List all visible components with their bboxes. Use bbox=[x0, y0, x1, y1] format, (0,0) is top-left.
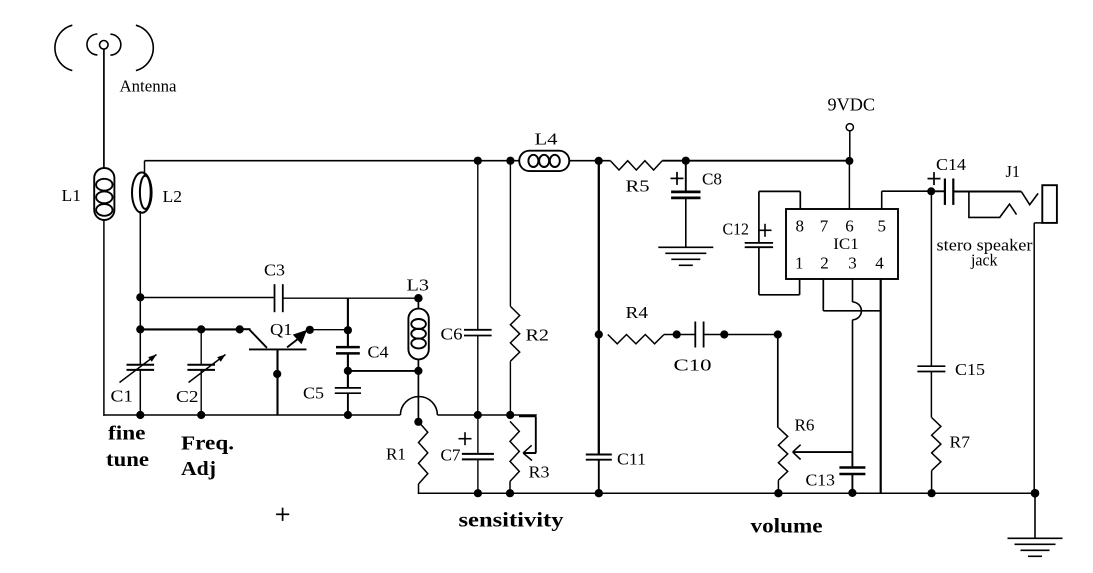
wire 9VDC drop bbox=[849, 131, 851, 161]
svg-text:C4: C4 bbox=[368, 343, 390, 362]
node C8 tap bbox=[682, 157, 690, 165]
potentiometer R6 bbox=[778, 428, 787, 481]
wire base wire bbox=[140, 328, 239, 330]
node C13 bottom bbox=[848, 489, 856, 497]
svg-text:6: 6 bbox=[845, 217, 854, 236]
wire C14 to jack bbox=[954, 191, 1021, 193]
node L3 bottom bbox=[414, 367, 422, 375]
svg-text:1: 1 bbox=[795, 254, 804, 273]
svg-text:IC1: IC1 bbox=[833, 236, 859, 253]
label R1 bbox=[386, 445, 406, 464]
wire R3 wiper bracket bbox=[519, 416, 536, 453]
svg-text:R6: R6 bbox=[795, 416, 815, 435]
wire pin3 hop bbox=[853, 302, 862, 320]
label C15 bbox=[955, 360, 985, 379]
node Q1 base-left bbox=[236, 325, 244, 333]
ground C8 bbox=[658, 198, 713, 265]
node supply-line top bbox=[595, 157, 603, 165]
node R6 bottom bbox=[774, 489, 782, 497]
capacitor C14 bbox=[945, 179, 953, 205]
node R2-R3 junction bbox=[506, 411, 514, 419]
svg-text:tune: tune bbox=[106, 449, 149, 471]
node R7 bottom bbox=[928, 489, 936, 497]
node C10 right bbox=[720, 330, 728, 338]
wire hop to C6 line bbox=[437, 414, 536, 416]
resistor R2 bbox=[510, 306, 519, 361]
svg-text:Antenna: Antenna bbox=[120, 77, 178, 96]
svg-text:3: 3 bbox=[848, 254, 857, 273]
svg-text:fine: fine bbox=[108, 423, 146, 445]
svg-text:C15: C15 bbox=[955, 360, 985, 379]
inductor L4 bbox=[519, 151, 569, 171]
capacitor C5 bbox=[335, 388, 361, 393]
variable capacitor C1 bbox=[120, 355, 157, 383]
wire L3 top stub bbox=[417, 298, 419, 309]
svg-text:L1: L1 bbox=[62, 186, 82, 205]
wire bottom rail bbox=[418, 492, 1035, 494]
label C4 bbox=[368, 343, 390, 362]
svg-text:7: 7 bbox=[820, 217, 829, 236]
wire C1 to rail bbox=[139, 370, 141, 415]
wire pin5 bbox=[882, 191, 932, 209]
svg-text:C3: C3 bbox=[264, 261, 285, 280]
node C14 junction bbox=[927, 187, 935, 195]
svg-text:C8: C8 bbox=[702, 170, 722, 189]
label C7 bbox=[441, 446, 461, 465]
jack J1 tip contact bbox=[1021, 192, 1038, 205]
wiper arrow R6 bbox=[793, 445, 853, 460]
label sensitivity bbox=[459, 508, 564, 532]
svg-text:C10: C10 bbox=[674, 356, 712, 375]
wire supply vertical bbox=[598, 161, 600, 454]
wire R5 to 9VDC bbox=[662, 160, 849, 162]
svg-text:2: 2 bbox=[820, 254, 829, 273]
capacitor C15 bbox=[917, 366, 945, 371]
label IC1 pin 6 bbox=[845, 217, 854, 236]
wire jack sleeve bbox=[1034, 223, 1042, 493]
svg-text:C1: C1 bbox=[111, 387, 134, 406]
wire C14 left stub bbox=[931, 190, 944, 192]
node C2 bottom bbox=[197, 411, 205, 419]
node C10 left bbox=[673, 330, 681, 338]
label volume bbox=[751, 514, 823, 538]
node C4 line junction bbox=[344, 326, 352, 334]
inductor L2 bbox=[132, 172, 152, 212]
label IC1 pin 5 bbox=[877, 217, 886, 236]
node L2-C3 junction bbox=[136, 293, 144, 301]
capacitor C12 plus bbox=[759, 224, 772, 237]
transistor Q1 bbox=[240, 329, 311, 415]
stray plus mark bbox=[276, 508, 289, 521]
label Freq. bbox=[181, 433, 234, 455]
label Adj bbox=[181, 458, 216, 480]
svg-text:R3: R3 bbox=[529, 463, 550, 482]
wire C13 to rail bbox=[851, 474, 853, 493]
label fine bbox=[108, 423, 146, 445]
node Q1 right bbox=[306, 326, 314, 334]
svg-text:9VDC: 9VDC bbox=[828, 95, 876, 115]
wire L1 to bottom rail bbox=[103, 220, 105, 416]
svg-text:jack: jack bbox=[970, 251, 998, 270]
svg-text:C12: C12 bbox=[723, 220, 750, 239]
node R6 top corner bbox=[774, 330, 782, 338]
node rail end bbox=[1031, 489, 1040, 498]
inductor L1 bbox=[94, 168, 114, 220]
wire antenna to L1 bbox=[103, 49, 105, 168]
label IC1 pin 7 bbox=[820, 217, 829, 236]
wire C3 feed bbox=[140, 297, 273, 299]
svg-text:C13: C13 bbox=[806, 471, 836, 490]
wire wiper to C13 bbox=[851, 452, 853, 467]
label C10 bbox=[674, 356, 712, 375]
wire C2 to rail bbox=[200, 370, 202, 415]
label IC1 bbox=[833, 236, 859, 253]
node C11 bottom bbox=[595, 489, 603, 497]
svg-text:C2: C2 bbox=[176, 387, 199, 406]
label C3 bbox=[264, 261, 285, 280]
wire pin8 loop bbox=[759, 191, 800, 242]
capacitor C4 bbox=[336, 347, 360, 353]
label IC1 pin 4 bbox=[875, 254, 884, 273]
wire L2 bottom stub bbox=[139, 211, 141, 297]
wire pin3 to wiper bbox=[852, 320, 854, 452]
svg-text:Adj: Adj bbox=[181, 458, 216, 480]
label C5 bbox=[303, 384, 324, 403]
label C11 bbox=[617, 450, 646, 469]
wire L2 top stub bbox=[144, 161, 146, 177]
wire C10 to corner bbox=[704, 334, 778, 336]
inductor L3 bbox=[408, 309, 428, 360]
node 9VDC rail bbox=[845, 157, 853, 165]
capacitor C7 bbox=[462, 454, 494, 460]
wiper arrow R3 bbox=[523, 445, 536, 460]
node L3 top bbox=[414, 294, 422, 302]
wire C15 line bbox=[930, 191, 932, 366]
capacitor C7 plus bbox=[459, 432, 472, 445]
label IC1 pin 2 bbox=[820, 254, 829, 273]
label Antenna bbox=[120, 77, 178, 96]
node Q1 emitter dot bbox=[273, 370, 281, 378]
svg-text:L3: L3 bbox=[407, 276, 430, 295]
label C14 bbox=[936, 155, 967, 174]
wire R3 to rail bbox=[509, 481, 511, 493]
wire C4-C5 mid bbox=[347, 353, 349, 387]
capacitor C8 plus bbox=[671, 172, 684, 185]
svg-text:8: 8 bbox=[795, 217, 804, 236]
svg-text:volume: volume bbox=[751, 514, 823, 538]
svg-text:C7: C7 bbox=[441, 446, 461, 465]
capacitor C8 bbox=[671, 192, 700, 198]
svg-text:R2: R2 bbox=[526, 326, 550, 345]
wire L3 to hop bbox=[417, 371, 419, 422]
svg-text:5: 5 bbox=[877, 217, 886, 236]
svg-text:R7: R7 bbox=[950, 433, 971, 452]
wire R2 bottom stub bbox=[509, 361, 511, 415]
label R5 bbox=[626, 177, 650, 196]
wire L3 bottom stub bbox=[417, 359, 419, 371]
wire C7 to rail bbox=[477, 459, 479, 493]
node R4 tap bbox=[595, 330, 603, 338]
jack J1 body bbox=[1042, 185, 1057, 223]
capacitor C12 bbox=[745, 243, 773, 247]
wire R1 to rail bbox=[418, 484, 420, 494]
svg-text:C6: C6 bbox=[441, 325, 463, 344]
capacitor C14 plus bbox=[928, 172, 941, 185]
label C2 bbox=[176, 387, 199, 406]
variable capacitor C2 bbox=[187, 355, 225, 383]
capacitor C11 bbox=[586, 455, 612, 460]
label L4 bbox=[535, 130, 559, 149]
svg-text:L4: L4 bbox=[535, 130, 559, 149]
wire Q1 to C4 line bbox=[310, 329, 348, 331]
wire C3 to L3 top bbox=[284, 297, 419, 299]
label IC1 pin 8 bbox=[795, 217, 804, 236]
wire C15 to R7 bbox=[930, 372, 932, 418]
resistor R7 bbox=[932, 418, 941, 471]
label R7 bbox=[950, 433, 971, 452]
label IC1 pin 1 bbox=[795, 254, 804, 273]
wire C5 to rail bbox=[347, 393, 349, 415]
label R2 bbox=[526, 326, 550, 345]
svg-text:sensitivity: sensitivity bbox=[459, 508, 564, 532]
label C1 bbox=[111, 387, 134, 406]
node C4-C5 tap bbox=[344, 367, 352, 375]
wire bottom-left rail bbox=[103, 414, 400, 416]
label C6 bbox=[441, 325, 463, 344]
jack J1 switch contact bbox=[969, 192, 1017, 218]
svg-text:C5: C5 bbox=[303, 384, 324, 403]
label J1 bbox=[1006, 162, 1021, 181]
node C6 bottom bbox=[474, 411, 482, 419]
svg-text:C11: C11 bbox=[617, 450, 646, 469]
label IC1 pin 3 bbox=[848, 254, 857, 273]
wire C11 to rail bbox=[598, 460, 600, 494]
node R2 top bbox=[506, 157, 514, 165]
node C6 top bbox=[474, 157, 482, 165]
svg-text:Q1: Q1 bbox=[270, 320, 293, 339]
svg-text:R5: R5 bbox=[626, 177, 650, 196]
svg-text:Freq.: Freq. bbox=[181, 433, 234, 455]
node R3 bottom bbox=[506, 489, 514, 497]
wire C6 line lower bbox=[477, 336, 479, 416]
svg-text:4: 4 bbox=[875, 254, 884, 273]
wire tap to L3 bottom bbox=[348, 370, 419, 372]
antenna bbox=[55, 25, 153, 70]
label L2 bbox=[163, 187, 183, 206]
wire R6 to rail bbox=[777, 480, 779, 493]
wire pin4 bbox=[880, 279, 882, 493]
label R3 bbox=[529, 463, 550, 482]
wire 9VDC to pin6 bbox=[848, 161, 850, 209]
wire node to C1 line bbox=[139, 297, 141, 364]
svg-text:R4: R4 bbox=[626, 303, 649, 322]
resistor R5 bbox=[610, 161, 662, 170]
node R1 top bbox=[414, 418, 422, 426]
resistor R3 bbox=[510, 421, 519, 481]
svg-text:J1: J1 bbox=[1006, 162, 1021, 181]
label Q1 bbox=[270, 320, 293, 339]
IC U1 box bbox=[786, 209, 898, 279]
node base-wire junction bbox=[136, 325, 144, 333]
terminal 9VDC bbox=[846, 124, 853, 131]
wire pin2 bbox=[823, 279, 880, 311]
wire C12 to pin1 bbox=[759, 247, 800, 295]
node C5 bottom bbox=[344, 411, 352, 419]
capacitor C13 bbox=[839, 468, 865, 475]
wire C4 top stub bbox=[347, 298, 349, 347]
label jack bbox=[970, 251, 998, 270]
ground right bbox=[1008, 493, 1063, 556]
label C8 bbox=[702, 170, 722, 189]
node C2 top bbox=[197, 325, 205, 333]
wire pin3 upper bbox=[852, 279, 854, 302]
wire R7 to rail bbox=[931, 471, 933, 494]
wire C2 top stub bbox=[200, 329, 202, 364]
capacitor C10 bbox=[695, 322, 703, 348]
svg-text:R1: R1 bbox=[386, 445, 406, 464]
capacitor C6 bbox=[464, 330, 492, 336]
resistor R1 bbox=[419, 422, 428, 484]
wire C6 line upper bbox=[477, 161, 479, 330]
wire R4 to C10 bbox=[664, 334, 695, 336]
label L3 bbox=[407, 276, 430, 295]
wire top rail left bbox=[145, 160, 520, 162]
wire hop arc bbox=[400, 397, 437, 416]
label 9VDC bbox=[828, 95, 876, 115]
wire C7 line top bbox=[477, 415, 479, 453]
capacitor C3 bbox=[275, 284, 283, 312]
node C1 bottom bbox=[136, 411, 144, 419]
svg-text:C14: C14 bbox=[936, 155, 967, 174]
label L1 bbox=[62, 186, 82, 205]
resistor R4 bbox=[608, 335, 664, 344]
label C13 bbox=[806, 471, 836, 490]
label R6 bbox=[795, 416, 815, 435]
wire corner to R6 bbox=[777, 335, 779, 428]
label tune bbox=[106, 449, 149, 471]
label C12 bbox=[723, 220, 750, 239]
wire L4 to R5 bbox=[570, 160, 611, 162]
node C7 bottom bbox=[474, 489, 482, 497]
wire C8 top stub bbox=[685, 161, 687, 192]
label stero speaker bbox=[937, 236, 1034, 255]
wire R2 top stub bbox=[509, 161, 511, 307]
label R4 bbox=[626, 303, 649, 322]
svg-text:L2: L2 bbox=[163, 187, 183, 206]
